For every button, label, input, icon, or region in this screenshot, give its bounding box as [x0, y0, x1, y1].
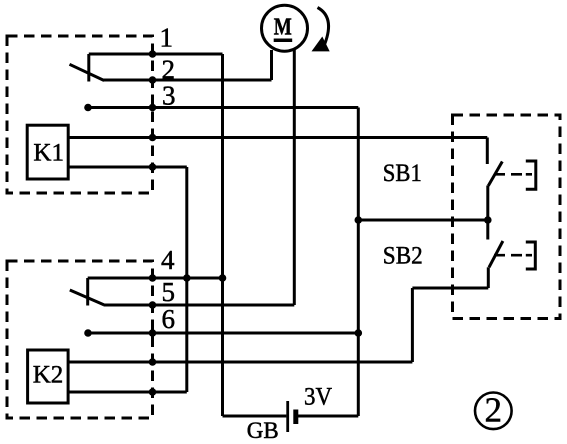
- svg-text:SB1: SB1: [383, 158, 422, 187]
- svg-text:6: 6: [162, 304, 176, 334]
- svg-text:3: 3: [162, 81, 176, 111]
- svg-text:1: 1: [160, 23, 174, 53]
- svg-text:K1: K1: [33, 140, 64, 167]
- svg-text:SB2: SB2: [383, 241, 423, 270]
- svg-text:5: 5: [162, 277, 176, 307]
- svg-text:4: 4: [161, 245, 175, 275]
- svg-text:3V: 3V: [304, 384, 332, 411]
- svg-text:M: M: [274, 14, 292, 40]
- svg-text:2: 2: [485, 391, 503, 430]
- svg-text:K2: K2: [33, 362, 64, 389]
- svg-text:GB: GB: [247, 418, 279, 443]
